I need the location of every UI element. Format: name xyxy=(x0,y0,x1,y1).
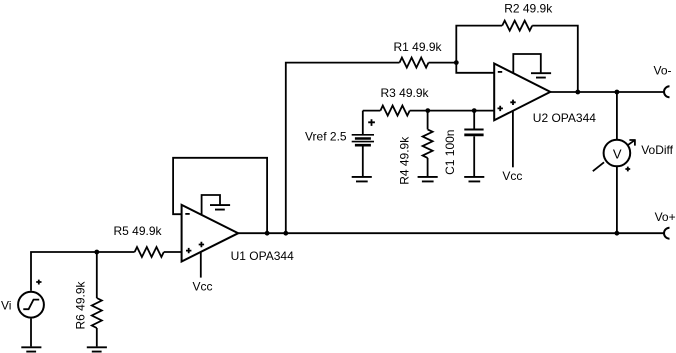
wire U2 output to Vo- terminal xyxy=(550,91,664,93)
svg-text:VoDiff: VoDiff xyxy=(641,143,673,157)
node junction Vi/R6 xyxy=(94,250,99,255)
wire R1 to U2 node xyxy=(429,62,457,64)
wire junction down to R6 xyxy=(96,252,98,298)
capacitor C1 xyxy=(464,130,483,135)
svg-text:U1 OPA344: U1 OPA344 xyxy=(231,249,294,263)
wire R2 feedback loop right xyxy=(532,26,578,92)
wire U2 -input jog xyxy=(456,63,494,73)
wire Vref bottom to ground xyxy=(362,146,364,176)
svg-text:C1 100n: C1 100n xyxy=(443,130,457,175)
wire U1 Vcc pin xyxy=(200,252,202,278)
wire U1 feedback loop xyxy=(173,158,267,233)
wire VoDiff riser bottom xyxy=(616,166,618,233)
resistor R4 xyxy=(423,129,433,158)
wire C1 stem top xyxy=(473,111,475,130)
node junction VoDiff/Vo+ xyxy=(615,231,620,236)
svg-text:R1 49.9k: R1 49.9k xyxy=(394,40,443,54)
node junction C1 xyxy=(472,108,477,113)
resistor R2 xyxy=(502,21,532,31)
node junction R2/output xyxy=(575,90,580,95)
node junction R3/R4 xyxy=(425,108,430,113)
ground under R6 xyxy=(87,347,107,351)
resistor R6 xyxy=(92,298,102,328)
ground at U2 pin xyxy=(531,73,551,77)
node junction R1 riser/output xyxy=(283,231,288,236)
wire Vi top to R5 to U1 +input xyxy=(31,252,182,291)
svg-text:Vo-: Vo- xyxy=(654,63,672,77)
wire Vref rail to U2 +input xyxy=(363,110,494,112)
wire U2 Vcc pin xyxy=(512,111,514,167)
wire R4 stem top xyxy=(427,111,429,130)
svg-text:R4 49.9k: R4 49.9k xyxy=(398,136,412,185)
wire U1 ground pin bracket xyxy=(202,195,220,215)
svg-text:Vcc: Vcc xyxy=(193,279,213,293)
wire C1 bottom to ground xyxy=(473,136,475,176)
voltmeter VoDiff xyxy=(593,139,636,171)
op-amp U1 xyxy=(182,205,239,262)
svg-text:U2 OPA344: U2 OPA344 xyxy=(533,111,596,125)
op-amp U2 xyxy=(494,64,550,121)
ground under R4 xyxy=(418,177,438,182)
wire riser to R1 xyxy=(286,63,400,234)
wire Vref stem top xyxy=(362,111,364,134)
terminal Vo+ xyxy=(664,228,669,239)
ground under Vref xyxy=(352,177,372,182)
terminal Vo- xyxy=(664,86,669,97)
resistor R3 xyxy=(380,106,409,116)
wire R2 feedback loop left xyxy=(456,26,502,63)
svg-text:R5 49.9k: R5 49.9k xyxy=(114,224,163,238)
node junction R1/R2/U2 -input xyxy=(454,60,459,65)
voltage source Vref battery xyxy=(352,119,375,145)
resistor R1 xyxy=(400,58,429,68)
ground at U1 pin xyxy=(210,205,230,210)
svg-text:Vo+: Vo+ xyxy=(655,210,676,224)
svg-text:R2 49.9k: R2 49.9k xyxy=(504,1,553,15)
wire R6 bottom to ground xyxy=(96,328,98,346)
resistor R5 xyxy=(135,247,164,257)
ground under C1 xyxy=(464,177,484,182)
svg-text:V: V xyxy=(613,147,622,162)
svg-text:Vcc: Vcc xyxy=(502,169,522,183)
node junction VoDiff/Vo- xyxy=(615,90,620,95)
svg-text:Vi: Vi xyxy=(1,299,11,313)
wire U1 output rail to Vo+ terminal xyxy=(238,232,664,234)
svg-text:R6 49.9k: R6 49.9k xyxy=(74,280,88,329)
ground under Vi xyxy=(21,347,41,351)
wire VoDiff riser top xyxy=(616,92,618,140)
voltage source Vi xyxy=(18,280,44,318)
wire R4 bottom to ground xyxy=(427,158,429,176)
wire U2 ground pin bracket xyxy=(513,54,541,73)
svg-text:Vref 2.5: Vref 2.5 xyxy=(305,130,347,144)
svg-text:R3 49.9k: R3 49.9k xyxy=(381,86,430,100)
node junction feedback/output xyxy=(265,231,270,236)
wire Vi bottom to ground xyxy=(30,319,32,347)
